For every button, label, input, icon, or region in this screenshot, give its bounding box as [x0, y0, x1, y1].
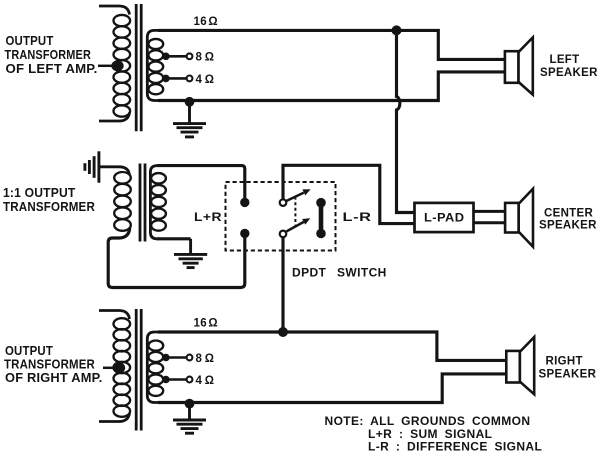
svg-text:L+R: L+R [194, 210, 222, 224]
svg-text:L-R : DIFFERENCE SIGNAL: L-R : DIFFERENCE SIGNAL [368, 440, 542, 454]
wire: T2 secondary top to switch throw L+R upper [157, 166, 245, 200]
transformer T1 core [136, 4, 141, 131]
wire: switch common 2 down to T3 16-ohm line [281, 237, 284, 332]
svg-text:OUTPUT: OUTPUT [6, 33, 54, 48]
svg-text:RIGHT: RIGHT [546, 355, 583, 367]
svg-text:4 Ω: 4 Ω [196, 74, 215, 86]
label: RIGHT SPEAKER [539, 355, 597, 380]
label: 1:1 OUTPUT TRANSFORMER [3, 185, 95, 214]
ground G3 (1:1 secondary) [174, 239, 207, 268]
svg-text:SPEAKER: SPEAKER [539, 219, 597, 231]
switch strapped throw contacts L-R (right side) [316, 198, 326, 238]
svg-text:16 Ω: 16 Ω [194, 317, 218, 329]
svg-text:1:1 OUTPUT: 1:1 OUTPUT [3, 185, 76, 200]
node: T3 ground tap junction [185, 399, 195, 409]
note: ALL GROUNDS COMMON [325, 414, 543, 453]
DPDT switch enclosure (dashed box) [226, 182, 336, 251]
transformer T1 secondary winding [147, 30, 163, 100]
svg-text:8 Ω: 8 Ω [196, 52, 215, 64]
svg-text:L-R: L-R [343, 210, 372, 224]
wire: T1 16-ohm tap to left speaker (+) [158, 30, 506, 59]
terminal: T1 8-ohm tap [162, 53, 192, 61]
wire: T2 secondary bottom to ground G3 [157, 237, 191, 240]
wire: L-PAD lower output to center speaker [474, 221, 507, 224]
ground G4 (T3 common) [173, 405, 206, 434]
transformer T3 primary winding (output transformer of right amp) [99, 311, 130, 422]
svg-text:16 Ω: 16 Ω [194, 16, 218, 28]
ground G2 (1:1 primary top, rotated) [85, 151, 99, 182]
wire: L-PAD upper output to center speaker [474, 210, 507, 213]
transformer T2 core [140, 164, 145, 242]
speaker LS3 (right) [506, 337, 534, 394]
switch arm 1 (upper, arrowhead) [284, 189, 310, 202]
ground G1 (T1 common) [173, 103, 206, 137]
wire: T3 16-ohm tap to right speaker (+) [158, 332, 507, 360]
wire: T3 common (ground line) to right speaker (-) [158, 374, 507, 403]
label: CENTER SPEAKER [539, 208, 597, 232]
label: OUTPUT TRANSFORMER OF RIGHT AMP. [4, 343, 103, 385]
svg-text:CENTER: CENTER [544, 208, 593, 220]
transformer T2 secondary winding [150, 166, 166, 239]
wire: center feed from 16-ohm junction to L-PAD upper input (crossover jog at ground line) [397, 31, 415, 213]
label: OUTPUT TRANSFORMER OF LEFT AMP. [5, 33, 98, 76]
speaker LS1 (left) [505, 37, 533, 94]
pointer from label to T1 primary [98, 60, 124, 71]
transformer T2 primary winding (1:1 output transformer) [100, 167, 245, 288]
node: junction on T1 16-ohm line [392, 25, 402, 35]
switch arm 2 (lower, arrowhead) [284, 218, 310, 232]
wire: T1 common (ground line) to left speaker (-) [158, 72, 506, 101]
switch mechanical link (dashed) [294, 197, 296, 227]
svg-text:L-PAD: L-PAD [424, 211, 465, 225]
svg-text:4 Ω: 4 Ω [196, 375, 215, 387]
switch common terminal 1 (upper circle) [280, 199, 287, 206]
svg-text:OF RIGHT AMP.: OF RIGHT AMP. [5, 370, 103, 385]
switch common terminal 2 (lower circle) [280, 231, 287, 238]
switch throw contact L+R pole 2 (lower-left dot) [240, 229, 249, 238]
terminal: T3 8-ohm tap [162, 354, 192, 362]
svg-text:8 Ω: 8 Ω [196, 353, 215, 365]
terminal: T3 4-ohm tap [162, 376, 192, 384]
node: T1 ground tap junction [185, 97, 195, 107]
speaker LS2 (center) [505, 189, 533, 247]
node: junction of switch common 2 on T3 16-ohm line [278, 327, 288, 337]
wire: switch common 1 to L-PAD lower input [283, 165, 415, 223]
transformer T3 core [136, 309, 141, 431]
label: LEFT SPEAKER [540, 54, 598, 79]
svg-text:OF LEFT AMP.: OF LEFT AMP. [6, 61, 98, 76]
svg-text:TRANSFORMER: TRANSFORMER [3, 199, 95, 214]
switch throw contact L+R pole 1 (upper-left dot) [240, 198, 249, 207]
pointer from label to T3 primary [103, 362, 125, 373]
svg-text:DPDT SWITCH: DPDT SWITCH [292, 266, 387, 280]
transformer T1 primary winding (output transformer of left amp) [99, 6, 130, 121]
svg-text:SPEAKER: SPEAKER [539, 369, 597, 381]
svg-text:LEFT: LEFT [550, 54, 580, 66]
transformer T3 secondary winding [147, 332, 163, 403]
attenuator L-PAD box [415, 203, 474, 232]
svg-text:SPEAKER: SPEAKER [540, 67, 598, 79]
svg-text:TRANSFORMER: TRANSFORMER [5, 47, 92, 62]
terminal: T1 4-ohm tap [162, 75, 192, 83]
